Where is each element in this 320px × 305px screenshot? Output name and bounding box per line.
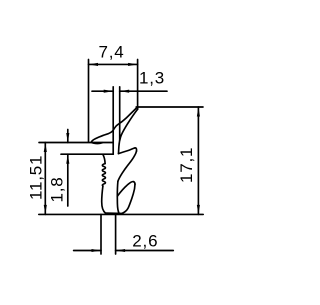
arrowhead dim 1,8 bottom — [66, 154, 69, 164]
leader line above dim 1,8 — [67, 130, 69, 143]
profile lower prong tip — [134, 182, 135, 185]
leader line left of dim 2,6 — [74, 250, 101, 252]
profile upper prong outer edge down to stem — [118, 151, 137, 181]
arrowhead dim 7,4 left — [89, 63, 99, 66]
extension line left of dim 1,3 / arm right wall — [112, 87, 114, 154]
leader line below dim 1,8 — [67, 154, 69, 206]
svg-text:7,4: 7,4 — [98, 43, 124, 62]
extension line right of dim 7,4 — [137, 60, 139, 109]
profile lower prong inner edge — [117, 182, 133, 197]
profile serrated edge — [102, 164, 105, 186]
extension line right of dim 1,3 — [119, 87, 121, 141]
dimension line 17,1 — [197, 107, 199, 214]
arrowhead dim 11,51 top — [44, 143, 47, 153]
arrowhead dim 1,3 right — [120, 90, 130, 93]
arrowhead dim 17,1 bottom — [197, 205, 200, 215]
arrowhead dim 1,3 left — [104, 90, 114, 93]
baseline bottom extension line — [39, 213, 203, 215]
arrowhead dim 1,8 top — [66, 133, 69, 143]
profile stem left wall lower and foot — [102, 186, 106, 213]
profile horn tip — [136, 108, 138, 109]
profile upper prong tip — [134, 148, 136, 151]
svg-text:11,51: 11,51 — [27, 155, 46, 200]
arrowhead dim 2,6 right — [116, 249, 126, 252]
leader line right of dim 1,3 — [120, 90, 167, 92]
extension line arm top — [39, 142, 113, 144]
dimension line 11,51 — [44, 143, 46, 215]
extension line left of dim 7,4 — [88, 60, 90, 142]
svg-text:1,8: 1,8 — [48, 176, 67, 202]
svg-text:17,1: 17,1 — [177, 147, 196, 183]
profile stem right wall — [116, 181, 119, 196]
extension line arm bottom — [61, 153, 113, 155]
arrowhead dim 2,6 left — [92, 249, 102, 252]
profile lower prong outer edge down to baseline — [122, 184, 135, 213]
profile upper prong inner edge — [119, 148, 135, 154]
profile horn right wall and neck down to notch — [119, 109, 138, 154]
profile horn left wall — [91, 109, 135, 144]
profile stem lower wall to foot — [117, 196, 119, 213]
profile stem left wall upper — [103, 154, 105, 163]
arrowhead dim 17,1 top — [197, 107, 200, 117]
dimension line 7,4 — [89, 63, 138, 65]
extension line left of dim 2,6 — [100, 215, 102, 255]
svg-text:1,3: 1,3 — [139, 69, 165, 88]
svg-text:2,6: 2,6 — [132, 231, 158, 250]
arrowhead dim 11,51 bottom — [44, 205, 47, 215]
profile foot bottom edge — [105, 212, 122, 214]
arrowhead dim 7,4 right — [128, 63, 138, 66]
extension line right of dim 2,6 — [115, 215, 117, 255]
leader line right of dim 2,6 — [116, 250, 174, 252]
leader line left of dim 1,3 — [92, 90, 113, 92]
extension line top of dim 17,1 — [136, 106, 203, 108]
